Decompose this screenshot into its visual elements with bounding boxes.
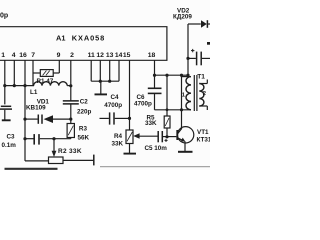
svg-text:C3: C3 bbox=[7, 134, 16, 141]
svg-text:A1: A1 bbox=[56, 34, 65, 43]
svg-text:KB109: KB109 bbox=[26, 104, 46, 111]
svg-text:VT1: VT1 bbox=[197, 129, 209, 136]
svg-text:14: 14 bbox=[115, 52, 123, 59]
svg-text:33K: 33K bbox=[112, 140, 124, 147]
svg-text:C5 10m: C5 10m bbox=[145, 145, 168, 152]
svg-text:0.1m: 0.1m bbox=[2, 142, 17, 149]
svg-text:КД209: КД209 bbox=[173, 13, 192, 20]
svg-text:L1: L1 bbox=[30, 89, 38, 96]
svg-text:220p: 220p bbox=[77, 109, 92, 116]
svg-text:1: 1 bbox=[1, 52, 5, 59]
svg-text:0p: 0p bbox=[0, 13, 8, 20]
svg-text:33K: 33K bbox=[145, 120, 157, 127]
svg-text:KXA058: KXA058 bbox=[72, 34, 105, 43]
svg-text:R4: R4 bbox=[114, 133, 123, 140]
svg-text:4700p: 4700p bbox=[134, 100, 152, 107]
svg-text:C2: C2 bbox=[80, 99, 89, 106]
svg-text:18: 18 bbox=[148, 52, 156, 59]
svg-text:2: 2 bbox=[70, 52, 74, 59]
svg-text:11: 11 bbox=[88, 52, 95, 59]
svg-text:4: 4 bbox=[12, 52, 16, 59]
svg-text:R2 33K: R2 33K bbox=[58, 148, 82, 155]
svg-text:56K: 56K bbox=[78, 134, 90, 141]
svg-text:R3: R3 bbox=[79, 126, 88, 133]
svg-text:12: 12 bbox=[96, 52, 104, 59]
svg-text:1: 1 bbox=[182, 92, 186, 98]
svg-text:R1 47: R1 47 bbox=[37, 78, 54, 85]
svg-text:7: 7 bbox=[31, 52, 35, 59]
svg-text:2: 2 bbox=[203, 91, 206, 97]
svg-text:C4: C4 bbox=[111, 94, 120, 101]
svg-text:13: 13 bbox=[106, 52, 114, 59]
svg-text:9: 9 bbox=[57, 52, 61, 59]
svg-text:15: 15 bbox=[123, 52, 131, 59]
svg-text:КТ315: КТ315 bbox=[197, 137, 211, 144]
svg-text:T1: T1 bbox=[197, 74, 205, 81]
svg-text:4700p: 4700p bbox=[104, 102, 122, 109]
svg-text:16: 16 bbox=[19, 52, 27, 59]
